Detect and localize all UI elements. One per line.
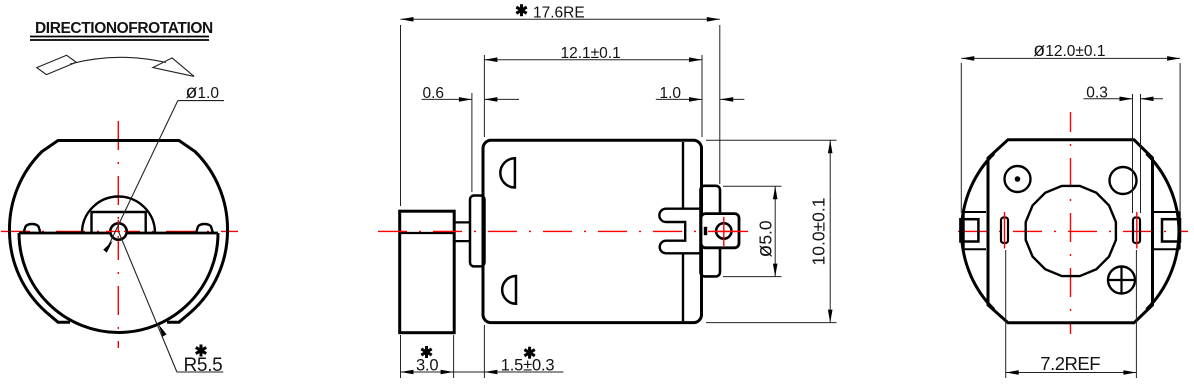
crosshair red on shaft end bbox=[712, 230, 748, 232]
dim 10.0 extension bottom bbox=[706, 322, 837, 324]
svg-text:1.0: 1.0 bbox=[660, 85, 682, 102]
svg-text:10.0±0.1: 10.0±0.1 bbox=[809, 198, 829, 266]
shaft circle bbox=[110, 223, 126, 239]
svg-text:ø5.0: ø5.0 bbox=[754, 220, 777, 257]
centerline vertical (left view) bbox=[117, 121, 119, 348]
dim 7.2REF line bbox=[1006, 372, 1137, 374]
star marker 3.0 bbox=[421, 346, 431, 358]
shaft end tab bbox=[701, 214, 739, 248]
terminal tab left inner bbox=[960, 219, 978, 241]
centerline over shaft circle vertical bbox=[117, 220, 119, 243]
leader shelf for R5.5 bbox=[177, 371, 223, 373]
svg-text:ø1.0: ø1.0 bbox=[186, 81, 220, 103]
bearing dome arc bbox=[82, 197, 155, 234]
dim 5.0 line vertical bbox=[774, 186, 776, 276]
svg-text:3.0: 3.0 bbox=[416, 356, 438, 374]
dim 0.6 arrows bbox=[457, 98, 472, 100]
centerline over shaft circle horizontal bbox=[106, 230, 131, 232]
hole bottom-right with cross bbox=[1108, 267, 1135, 294]
svg-text:17.6RE: 17.6RE bbox=[533, 5, 585, 22]
svg-text:ø12.0±0.1: ø12.0±0.1 bbox=[1033, 39, 1105, 61]
svg-text:7.2REF: 7.2REF bbox=[1040, 353, 1100, 374]
dim 1.0 arrows bbox=[694, 98, 702, 100]
dim 0.3 label underline bbox=[1084, 98, 1125, 100]
dim 7.2REF extension right bbox=[1135, 250, 1137, 378]
terminal tab left notch bbox=[964, 212, 986, 249]
rotation arrow right triangle bbox=[153, 58, 194, 77]
svg-text:DIRECTIONOFROTATION: DIRECTIONOFROTATION bbox=[35, 20, 213, 37]
centerline horizontal (left view) bbox=[1, 230, 238, 232]
weight internal edge line bbox=[400, 232, 455, 234]
dim 5.0 extension bottom bbox=[723, 276, 782, 278]
dim 12.0 line bbox=[961, 57, 1180, 59]
dim 17.6RE extension left bbox=[400, 25, 402, 206]
label shelf for diameter 1.0 bbox=[178, 100, 224, 102]
dim 12.0 extension right bbox=[1179, 63, 1181, 213]
slot left bbox=[1001, 218, 1008, 244]
motor body (side view) bbox=[483, 140, 702, 322]
svg-text:0.6: 0.6 bbox=[423, 85, 445, 102]
arrowhead on weight arc bbox=[158, 324, 166, 337]
vent hole D top bbox=[500, 158, 515, 187]
dim 3.0 extension left bbox=[400, 335, 402, 378]
dim 1.5 extension bbox=[483, 325, 485, 378]
dim 10.0 line vertical bbox=[829, 140, 831, 322]
title underline double bbox=[30, 37, 209, 41]
dim 0.6 label underline bbox=[422, 98, 458, 100]
hole top-right bbox=[1110, 167, 1137, 194]
end cap 5.0 step bbox=[701, 186, 721, 277]
dim 10.0 extension top bbox=[706, 139, 837, 141]
terminal fork bracket bbox=[659, 209, 701, 254]
svg-text:12.1±0.1: 12.1±0.1 bbox=[561, 45, 621, 62]
housing circle arc right bbox=[1147, 154, 1179, 310]
star marker above R5.5 bbox=[196, 345, 206, 357]
star marker 1.5 bbox=[524, 347, 534, 359]
centerline horizontal (middle view) bbox=[378, 230, 748, 232]
housing circle arc left bbox=[962, 154, 994, 310]
dim 17.6RE line bbox=[401, 18, 720, 20]
dim 17.6RE extension right bbox=[719, 25, 721, 184]
eccentric weight top edge bbox=[19, 232, 218, 235]
centerline vertical (right view) bbox=[1070, 112, 1072, 334]
bearing flange boss bbox=[470, 196, 485, 267]
bump right on weight edge bbox=[196, 224, 213, 233]
dim 0.6 extension bbox=[471, 93, 473, 192]
dim 0.3 extensions bbox=[1132, 94, 1134, 213]
dim 12.1 line bbox=[484, 59, 702, 61]
dim 12.1 extension right bbox=[701, 55, 703, 137]
rotation arrow left parallelogram bbox=[37, 55, 77, 74]
motor housing outline top (left view) bbox=[9, 141, 227, 232]
bump left on weight edge bbox=[24, 224, 41, 233]
arrowhead on shaft circle bbox=[103, 241, 113, 253]
dim 3.0 extension right bbox=[453, 335, 455, 378]
dim 5.0 extension top bbox=[723, 185, 782, 187]
star marker 17.6RE bbox=[516, 4, 526, 16]
end cap joint line upper bbox=[682, 142, 684, 208]
leader line for diameter 1.0 bbox=[106, 101, 178, 251]
terminal tab right inner bbox=[1162, 219, 1180, 241]
slot right bbox=[1133, 218, 1140, 244]
dim 0.3 arrows bbox=[1125, 98, 1133, 100]
shaft end circle bbox=[716, 223, 731, 238]
motor housing outline bottom-right flat bbox=[167, 232, 228, 323]
dim 7.2REF extension left bbox=[1005, 250, 1007, 378]
hole top-left with dot bbox=[1005, 166, 1031, 192]
terminal tab right notch bbox=[1153, 212, 1180, 249]
dim 12.1 extension left bbox=[483, 55, 485, 137]
eccentric weight arc R5.5 bbox=[19, 233, 218, 332]
dim line bottom shared bbox=[401, 371, 564, 373]
svg-text:R5.5: R5.5 bbox=[184, 355, 223, 376]
central boss circle (16-gon) bbox=[1026, 186, 1116, 276]
shaft stub top line bbox=[454, 221, 471, 223]
motor housing outline bottom-left flat bbox=[10, 232, 71, 323]
leader line for R5.5 bbox=[119, 232, 177, 373]
dim 12.0 extension left bbox=[960, 63, 962, 213]
notch mark on tab bbox=[704, 227, 707, 235]
shaft stub bottom line bbox=[454, 240, 471, 242]
rotation arrow arc bbox=[70, 57, 166, 64]
vent hole D bottom bbox=[502, 276, 516, 304]
end cap octagon bbox=[988, 140, 1153, 323]
end cap joint line lower bbox=[682, 254, 684, 322]
centerline horizontal (right view) bbox=[958, 230, 1188, 232]
svg-text:1.5±0.3: 1.5±0.3 bbox=[501, 356, 555, 374]
weight rectangle (side view) bbox=[400, 211, 455, 333]
dim 1.0 label underline bbox=[656, 98, 695, 100]
dome notch rectangle bbox=[92, 212, 146, 233]
svg-text:0.3: 0.3 bbox=[1086, 84, 1108, 101]
